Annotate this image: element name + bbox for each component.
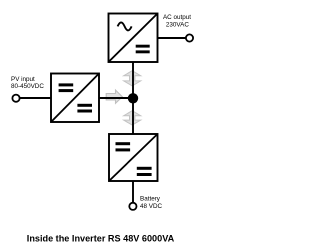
svg-text:230VAC: 230VAC [166,21,189,28]
svg-text:AC output: AC output [163,14,191,21]
svg-text:Battery: Battery [140,195,161,202]
svg-text:48 VDC: 48 VDC [140,203,163,210]
power-flow arrow A2 (gray, bidirectional, DC bus to inverter) [124,71,141,86]
svg-text:Inside the Inverter RS 48V 600: Inside the Inverter RS 48V 6000VA [27,233,175,243]
terminal: Battery [129,203,136,210]
wire: inverter to AC terminal [158,37,186,39]
node: DC bus junction [128,93,138,103]
wire: battery converter to battery terminal [132,181,134,203]
converter U1: MPPT solar charger (DC-DC) [51,74,99,123]
power-flow arrow A1 (gray, PV to DC bus, pointing right) [106,90,122,103]
wire: inverter to DC bus node (vertical) [132,62,134,98]
converter U3: battery charger (DC-DC) [109,134,158,181]
power-flow arrow A3 (gray, bidirectional, DC bus to battery converter) [124,111,141,125]
wire: PV terminal to PV converter [19,97,51,99]
svg-text:80-450VDC: 80-450VDC [11,83,44,90]
terminal: PV input [12,95,19,102]
inverter U2: DC-AC inverter [109,14,158,63]
wire: PV converter to DC bus node [99,97,133,99]
wire: DC bus node to battery converter (vertical) [132,98,134,134]
terminal: AC output [186,34,193,41]
